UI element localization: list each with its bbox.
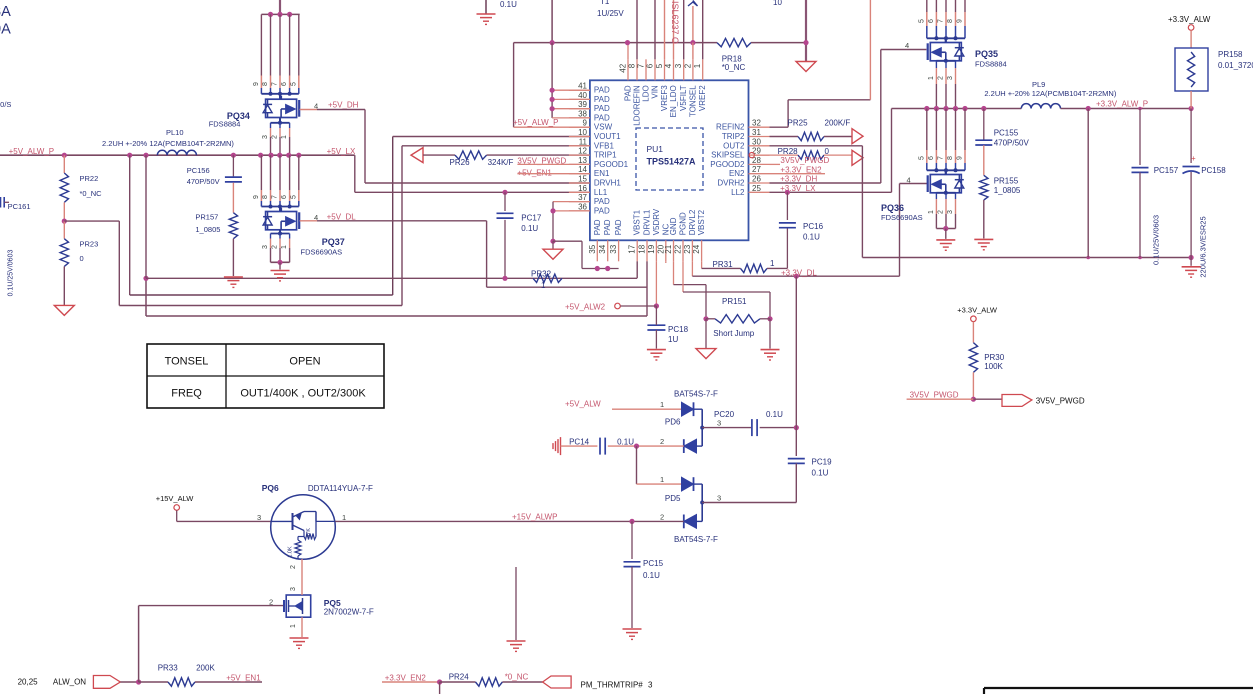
svg-text:0: 0 bbox=[825, 147, 830, 156]
svg-text:PC161: PC161 bbox=[8, 202, 31, 211]
svg-text:10: 10 bbox=[773, 0, 782, 7]
svg-text:1: 1 bbox=[342, 513, 346, 522]
svg-text:PR155: PR155 bbox=[994, 177, 1019, 186]
svg-text:PAD: PAD bbox=[594, 197, 610, 206]
svg-text:PR26: PR26 bbox=[450, 158, 471, 167]
svg-text:7: 7 bbox=[938, 156, 945, 160]
svg-text:+15V_ALW: +15V_ALW bbox=[156, 494, 195, 503]
svg-text:+5V_EN1: +5V_EN1 bbox=[226, 673, 261, 682]
svg-text:DRVL1: DRVL1 bbox=[643, 209, 652, 235]
svg-text:OPEN: OPEN bbox=[289, 356, 320, 368]
svg-text:24: 24 bbox=[692, 244, 701, 253]
svg-text:2.2UH +-20% 12A(PCMB104T-2R2MN: 2.2UH +-20% 12A(PCMB104T-2R2MN) bbox=[984, 89, 1116, 98]
svg-text:PC20: PC20 bbox=[714, 410, 735, 419]
svg-text:3: 3 bbox=[648, 681, 653, 690]
svg-text:7: 7 bbox=[637, 63, 646, 68]
svg-text:5: 5 bbox=[918, 19, 925, 23]
svg-text:T1: T1 bbox=[600, 0, 610, 6]
svg-text:26: 26 bbox=[752, 175, 761, 184]
svg-text:1: 1 bbox=[541, 281, 546, 290]
svg-text:Short Jump: Short Jump bbox=[713, 329, 754, 338]
svg-text:1U/25V: 1U/25V bbox=[597, 9, 624, 18]
svg-text:470P/50V: 470P/50V bbox=[187, 177, 220, 186]
svg-text:PD6: PD6 bbox=[665, 418, 681, 427]
svg-text:3: 3 bbox=[717, 418, 721, 427]
svg-text:41: 41 bbox=[578, 82, 587, 91]
svg-text:PAD: PAD bbox=[614, 219, 623, 235]
svg-text:FDS6690AS: FDS6690AS bbox=[301, 248, 343, 257]
svg-text:OUT2: OUT2 bbox=[723, 141, 745, 150]
svg-text:27: 27 bbox=[752, 165, 761, 174]
svg-text:PC157: PC157 bbox=[1154, 166, 1179, 175]
svg-text:47K: 47K bbox=[306, 528, 312, 538]
svg-text:0.1U/25V/0603: 0.1U/25V/0603 bbox=[1152, 215, 1161, 265]
svg-text:0.1U: 0.1U bbox=[643, 571, 660, 580]
svg-text:1.0K: 1.0K bbox=[288, 546, 294, 558]
svg-text:PC155: PC155 bbox=[994, 129, 1019, 138]
svg-text:PD5: PD5 bbox=[665, 494, 681, 503]
svg-text:220U/6.3V/ESR25: 220U/6.3V/ESR25 bbox=[1199, 216, 1208, 277]
svg-text:+5V_EN1: +5V_EN1 bbox=[517, 168, 552, 177]
svg-text:0.1U: 0.1U bbox=[803, 233, 820, 242]
svg-text:1: 1 bbox=[281, 135, 288, 139]
svg-text:1_0805: 1_0805 bbox=[994, 186, 1021, 195]
svg-text:+3.3V_DL: +3.3V_DL bbox=[781, 268, 817, 277]
svg-text:SKIPSEL: SKIPSEL bbox=[711, 151, 745, 160]
svg-text:3A: 3A bbox=[0, 4, 11, 20]
svg-text:LL2: LL2 bbox=[731, 188, 745, 197]
svg-text:TRIP1: TRIP1 bbox=[594, 151, 617, 160]
svg-text:PQ6: PQ6 bbox=[262, 483, 279, 493]
svg-text:FDS8884: FDS8884 bbox=[209, 119, 241, 128]
svg-text:3V5V_PWGD: 3V5V_PWGD bbox=[910, 391, 959, 400]
svg-text:PR30: PR30 bbox=[984, 353, 1005, 362]
svg-text:EN2: EN2 bbox=[729, 169, 745, 178]
svg-text:21: 21 bbox=[664, 244, 673, 253]
svg-text:DVRH2: DVRH2 bbox=[717, 179, 745, 188]
svg-text:PAD: PAD bbox=[593, 219, 602, 235]
svg-text:8: 8 bbox=[262, 82, 269, 86]
svg-text:6: 6 bbox=[281, 195, 288, 199]
svg-text:3: 3 bbox=[947, 210, 954, 214]
svg-text:3: 3 bbox=[947, 76, 954, 80]
svg-text:38: 38 bbox=[578, 109, 587, 118]
svg-text:PR158: PR158 bbox=[1218, 50, 1243, 59]
svg-text:VOUT1: VOUT1 bbox=[594, 132, 621, 141]
svg-text:37: 37 bbox=[578, 193, 587, 202]
svg-text:33: 33 bbox=[609, 244, 618, 253]
svg-text:13: 13 bbox=[578, 156, 587, 165]
svg-text:0.1U: 0.1U bbox=[500, 0, 517, 9]
svg-text:5: 5 bbox=[918, 156, 925, 160]
svg-text:+3.3V_EN2: +3.3V_EN2 bbox=[780, 165, 822, 174]
svg-text:LDO: LDO bbox=[642, 85, 651, 101]
svg-text:PR25: PR25 bbox=[788, 119, 809, 128]
svg-text:EN_LDO: EN_LDO bbox=[669, 85, 678, 117]
svg-text:8: 8 bbox=[947, 156, 954, 160]
svg-text:*0_NC: *0_NC bbox=[722, 63, 746, 72]
svg-text:PR28: PR28 bbox=[778, 147, 799, 156]
svg-text:VIN: VIN bbox=[651, 85, 660, 99]
svg-text:1: 1 bbox=[281, 245, 288, 249]
svg-text:8: 8 bbox=[262, 195, 269, 199]
svg-text:1: 1 bbox=[693, 63, 702, 68]
svg-text:0.1U: 0.1U bbox=[766, 410, 783, 419]
svg-text:EN1: EN1 bbox=[594, 169, 610, 178]
svg-text:36: 36 bbox=[578, 202, 587, 211]
svg-text:2: 2 bbox=[272, 245, 279, 249]
svg-text:6: 6 bbox=[928, 156, 935, 160]
svg-text:20,25: 20,25 bbox=[18, 678, 39, 687]
svg-text:+5V_ALW_P: +5V_ALW_P bbox=[513, 118, 558, 127]
svg-text:PAD: PAD bbox=[603, 219, 612, 235]
svg-text:15: 15 bbox=[578, 175, 587, 184]
svg-text:12: 12 bbox=[578, 147, 587, 156]
svg-text:7: 7 bbox=[938, 19, 945, 23]
svg-text:V5FILT: V5FILT bbox=[679, 85, 688, 111]
svg-text:2: 2 bbox=[660, 512, 664, 521]
svg-text:GND: GND bbox=[669, 217, 678, 235]
svg-text:2: 2 bbox=[290, 565, 297, 569]
svg-text:3: 3 bbox=[257, 513, 261, 522]
svg-text:+3.3V_EN2: +3.3V_EN2 bbox=[385, 673, 427, 682]
svg-text:PAD: PAD bbox=[594, 86, 610, 95]
svg-text:PQ35: PQ35 bbox=[975, 49, 998, 59]
svg-text:OUT1/400K , OUT2/300K: OUT1/400K , OUT2/300K bbox=[240, 388, 366, 400]
svg-text:11: 11 bbox=[579, 137, 588, 146]
svg-text:PR22: PR22 bbox=[80, 174, 99, 183]
svg-text:PL9: PL9 bbox=[1032, 80, 1045, 89]
svg-text:42: 42 bbox=[619, 63, 628, 72]
svg-text:16: 16 bbox=[578, 184, 587, 193]
svg-text:0.1U/25V/0603: 0.1U/25V/0603 bbox=[8, 250, 15, 297]
svg-text:ISL6237 O: ISL6237 O bbox=[670, 1, 680, 44]
svg-text:34: 34 bbox=[598, 244, 607, 253]
svg-text:200K: 200K bbox=[196, 664, 215, 673]
svg-text:+15V_ALWP: +15V_ALWP bbox=[512, 513, 557, 522]
svg-text:31: 31 bbox=[752, 128, 761, 137]
svg-text:19: 19 bbox=[647, 244, 656, 253]
svg-text:1: 1 bbox=[290, 624, 297, 628]
svg-text:0.1U: 0.1U bbox=[812, 469, 829, 478]
svg-text:3: 3 bbox=[674, 63, 683, 68]
svg-text:PQ36: PQ36 bbox=[881, 203, 904, 213]
svg-text:TONSEL: TONSEL bbox=[165, 356, 209, 368]
svg-text:PR24: PR24 bbox=[449, 673, 470, 682]
svg-text:200K/F: 200K/F bbox=[825, 119, 851, 128]
svg-text:8: 8 bbox=[628, 63, 637, 68]
svg-text:+5V_ALW_P: +5V_ALW_P bbox=[9, 147, 54, 156]
svg-text:V5DRV: V5DRV bbox=[652, 208, 661, 235]
svg-text:FDS6690AS: FDS6690AS bbox=[881, 213, 923, 222]
svg-text:1: 1 bbox=[928, 76, 935, 80]
svg-text:TONSEL: TONSEL bbox=[688, 85, 697, 117]
svg-text:2N7002W-7-F: 2N7002W-7-F bbox=[324, 608, 374, 617]
svg-text:1: 1 bbox=[928, 210, 935, 214]
svg-text:LL1: LL1 bbox=[594, 188, 608, 197]
svg-text:23: 23 bbox=[683, 244, 692, 253]
svg-text:10: 10 bbox=[578, 128, 587, 137]
svg-text:PL10: PL10 bbox=[166, 128, 184, 137]
svg-text:1: 1 bbox=[660, 475, 664, 484]
svg-text:PC156: PC156 bbox=[187, 166, 210, 175]
svg-text:1: 1 bbox=[770, 259, 775, 268]
svg-text:14: 14 bbox=[578, 165, 587, 174]
svg-text:PAD: PAD bbox=[594, 104, 610, 113]
svg-text:324K/F: 324K/F bbox=[488, 158, 514, 167]
svg-text:DRVL2: DRVL2 bbox=[688, 209, 697, 235]
svg-text:PM_THRMTRIP#: PM_THRMTRIP# bbox=[581, 681, 644, 690]
svg-text:2: 2 bbox=[272, 135, 279, 139]
svg-text:PC17: PC17 bbox=[521, 213, 542, 222]
svg-text:6: 6 bbox=[928, 19, 935, 23]
svg-text:8: 8 bbox=[947, 19, 954, 23]
svg-text:BAT54S-7-F: BAT54S-7-F bbox=[674, 535, 718, 544]
svg-text:BAT54S-7-F: BAT54S-7-F bbox=[674, 390, 718, 399]
svg-text:100K: 100K bbox=[984, 362, 1003, 371]
svg-text:17: 17 bbox=[628, 244, 637, 253]
svg-text:1: 1 bbox=[660, 400, 664, 409]
svg-text:+3.3V_ALW: +3.3V_ALW bbox=[957, 305, 998, 314]
svg-text:9: 9 bbox=[957, 19, 964, 23]
svg-text:29: 29 bbox=[752, 147, 761, 156]
svg-text:+5V_DH: +5V_DH bbox=[328, 101, 359, 110]
svg-text:TRIP2: TRIP2 bbox=[722, 132, 745, 141]
svg-text:PC18: PC18 bbox=[668, 325, 689, 334]
svg-text:PQ5: PQ5 bbox=[324, 598, 341, 608]
svg-text:+: + bbox=[1191, 154, 1196, 163]
svg-text:DDTA114YUA-7-F: DDTA114YUA-7-F bbox=[308, 484, 373, 493]
svg-text:0A: 0A bbox=[0, 22, 11, 38]
svg-text:PC16: PC16 bbox=[803, 222, 824, 231]
svg-text:2: 2 bbox=[269, 598, 273, 607]
svg-text:VBST1: VBST1 bbox=[633, 209, 642, 235]
svg-text:3V5V_PWGD: 3V5V_PWGD bbox=[780, 156, 829, 165]
svg-text:LDOREFIN: LDOREFIN bbox=[633, 85, 642, 126]
svg-text:35: 35 bbox=[588, 244, 597, 253]
svg-text:PR23: PR23 bbox=[80, 240, 99, 249]
svg-text:*0_NC: *0_NC bbox=[80, 189, 103, 198]
svg-text:PGOOD2: PGOOD2 bbox=[710, 160, 745, 169]
svg-text:PR33: PR33 bbox=[158, 664, 179, 673]
svg-text:REFIN2: REFIN2 bbox=[716, 123, 745, 132]
svg-text:PC15: PC15 bbox=[643, 559, 664, 568]
svg-text:9: 9 bbox=[253, 195, 260, 199]
svg-text:4: 4 bbox=[905, 41, 909, 50]
svg-text:4: 4 bbox=[664, 63, 673, 68]
svg-text:DRVH1: DRVH1 bbox=[594, 179, 622, 188]
svg-text:ALW_ON: ALW_ON bbox=[53, 678, 86, 687]
svg-text:VFB1: VFB1 bbox=[594, 141, 615, 150]
svg-text:3: 3 bbox=[290, 587, 297, 591]
svg-text:2: 2 bbox=[938, 76, 945, 80]
svg-text:9: 9 bbox=[253, 82, 260, 86]
svg-text:2: 2 bbox=[683, 63, 692, 68]
svg-text:0.01_3720: 0.01_3720 bbox=[1218, 61, 1253, 70]
svg-text:1U: 1U bbox=[668, 335, 678, 344]
svg-text:TPS51427A: TPS51427A bbox=[647, 157, 697, 167]
svg-text:+5V_ALW2: +5V_ALW2 bbox=[565, 303, 606, 312]
svg-text:PAD: PAD bbox=[624, 85, 633, 101]
svg-text:PAD: PAD bbox=[594, 206, 610, 215]
svg-text:22: 22 bbox=[674, 244, 683, 253]
svg-text:VREF3: VREF3 bbox=[660, 85, 669, 111]
svg-text:PR157: PR157 bbox=[195, 213, 218, 222]
svg-text:30: 30 bbox=[752, 137, 761, 146]
svg-text:6: 6 bbox=[646, 63, 655, 68]
svg-text:PAD: PAD bbox=[594, 95, 610, 104]
svg-text:9: 9 bbox=[957, 156, 964, 160]
svg-text:PR32: PR32 bbox=[531, 270, 552, 279]
svg-text:0.1U: 0.1U bbox=[521, 224, 538, 233]
svg-text:39: 39 bbox=[578, 100, 587, 109]
svg-text:3V5V_PWGD: 3V5V_PWGD bbox=[1036, 397, 1085, 406]
svg-text:3: 3 bbox=[262, 135, 269, 139]
svg-text:20/S: 20/S bbox=[0, 100, 11, 109]
svg-text:25: 25 bbox=[752, 184, 761, 193]
svg-text:5: 5 bbox=[290, 82, 297, 86]
svg-text:3: 3 bbox=[262, 245, 269, 249]
svg-text:VBST2: VBST2 bbox=[697, 209, 706, 235]
svg-text:2: 2 bbox=[660, 437, 664, 446]
svg-text:4: 4 bbox=[907, 176, 911, 185]
svg-text:7: 7 bbox=[272, 195, 279, 199]
svg-text:3: 3 bbox=[717, 493, 721, 502]
svg-text:VREF2: VREF2 bbox=[698, 85, 707, 111]
svg-text:+3.3V_ALW: +3.3V_ALW bbox=[1168, 15, 1211, 24]
svg-text:PC14: PC14 bbox=[569, 438, 590, 447]
svg-text:9: 9 bbox=[583, 119, 588, 128]
svg-text:7: 7 bbox=[272, 82, 279, 86]
svg-text:470P/50V: 470P/50V bbox=[994, 139, 1030, 148]
svg-text:40: 40 bbox=[578, 91, 587, 100]
svg-text:PR31: PR31 bbox=[713, 260, 734, 269]
svg-text:5: 5 bbox=[655, 63, 664, 68]
svg-text:1_0805: 1_0805 bbox=[195, 225, 220, 234]
svg-text:2.2UH +-20% 12A(PCMB104T-2R2MN: 2.2UH +-20% 12A(PCMB104T-2R2MN) bbox=[102, 139, 234, 148]
svg-text:+5V_ALW: +5V_ALW bbox=[565, 400, 601, 409]
svg-text:PGND: PGND bbox=[679, 212, 688, 235]
svg-text:PC19: PC19 bbox=[812, 458, 833, 467]
svg-text:5: 5 bbox=[290, 195, 297, 199]
svg-text:PU1: PU1 bbox=[647, 144, 664, 154]
svg-text:6: 6 bbox=[281, 82, 288, 86]
svg-text:PAD: PAD bbox=[594, 113, 610, 122]
svg-text:+5V_DL: +5V_DL bbox=[327, 212, 357, 221]
svg-text:18: 18 bbox=[638, 244, 647, 253]
svg-text:0.1U: 0.1U bbox=[617, 438, 634, 447]
svg-text:32: 32 bbox=[752, 119, 761, 128]
svg-text:0: 0 bbox=[80, 254, 84, 263]
svg-text:2: 2 bbox=[938, 210, 945, 214]
svg-text:FDS8884: FDS8884 bbox=[975, 60, 1007, 69]
svg-text:PR151: PR151 bbox=[722, 297, 747, 306]
svg-text:+5V_LX: +5V_LX bbox=[327, 147, 356, 156]
svg-text:VSW: VSW bbox=[594, 123, 613, 132]
svg-text:PGOOD1: PGOOD1 bbox=[594, 160, 629, 169]
svg-text:PQ37: PQ37 bbox=[322, 237, 345, 247]
svg-text:*0_NC: *0_NC bbox=[505, 673, 529, 682]
svg-text:PC158: PC158 bbox=[1201, 166, 1226, 175]
svg-text:FREQ: FREQ bbox=[171, 388, 202, 400]
